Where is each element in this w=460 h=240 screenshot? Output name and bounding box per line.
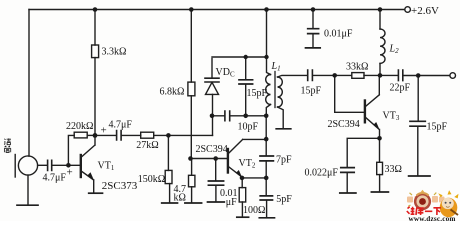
svg-text:6.8kΩ: 6.8kΩ (160, 87, 185, 98)
svg-text:4.7μF: 4.7μF (43, 173, 67, 184)
svg-text:0.022μF: 0.022μF (305, 167, 339, 178)
svg-text:150kΩ: 150kΩ (138, 174, 165, 185)
svg-text:100Ω: 100Ω (243, 205, 265, 216)
svg-text:7pF: 7pF (276, 154, 292, 165)
svg-text:5pF: 5pF (276, 194, 292, 205)
svg-text:2SC394: 2SC394 (196, 144, 228, 155)
svg-text:3.3kΩ: 3.3kΩ (102, 47, 127, 58)
svg-text:2SC373: 2SC373 (102, 180, 138, 192)
svg-text:27kΩ: 27kΩ (136, 140, 158, 151)
svg-text:220kΩ: 220kΩ (66, 121, 93, 132)
svg-text:4.7μF: 4.7μF (109, 120, 133, 131)
svg-text:VT1: VT1 (98, 161, 115, 173)
svg-text:15pF: 15pF (247, 88, 268, 99)
svg-text:0.01μF: 0.01μF (324, 29, 353, 40)
svg-text:2SC394: 2SC394 (328, 119, 360, 130)
svg-text:15pF: 15pF (301, 85, 322, 96)
svg-text:22pF: 22pF (390, 82, 411, 93)
svg-text:www.dzsc.com: www.dzsc.com (409, 215, 456, 221)
svg-text:33Ω: 33Ω (385, 164, 402, 175)
svg-text:15pF: 15pF (427, 121, 448, 132)
svg-text:kΩ: kΩ (174, 193, 186, 204)
svg-text:VT3: VT3 (383, 111, 400, 123)
svg-text:33kΩ: 33kΩ (346, 62, 368, 73)
svg-text:L1: L1 (271, 61, 281, 73)
svg-text:+2.6V: +2.6V (411, 5, 439, 17)
svg-text:VT2: VT2 (239, 158, 256, 170)
svg-text:VDC: VDC (216, 67, 235, 79)
svg-text:+: + (101, 125, 107, 137)
svg-text:μF: μF (226, 197, 237, 208)
svg-text:10pF: 10pF (238, 122, 259, 133)
svg-text:+: + (67, 166, 73, 178)
svg-text:L2: L2 (389, 44, 400, 56)
